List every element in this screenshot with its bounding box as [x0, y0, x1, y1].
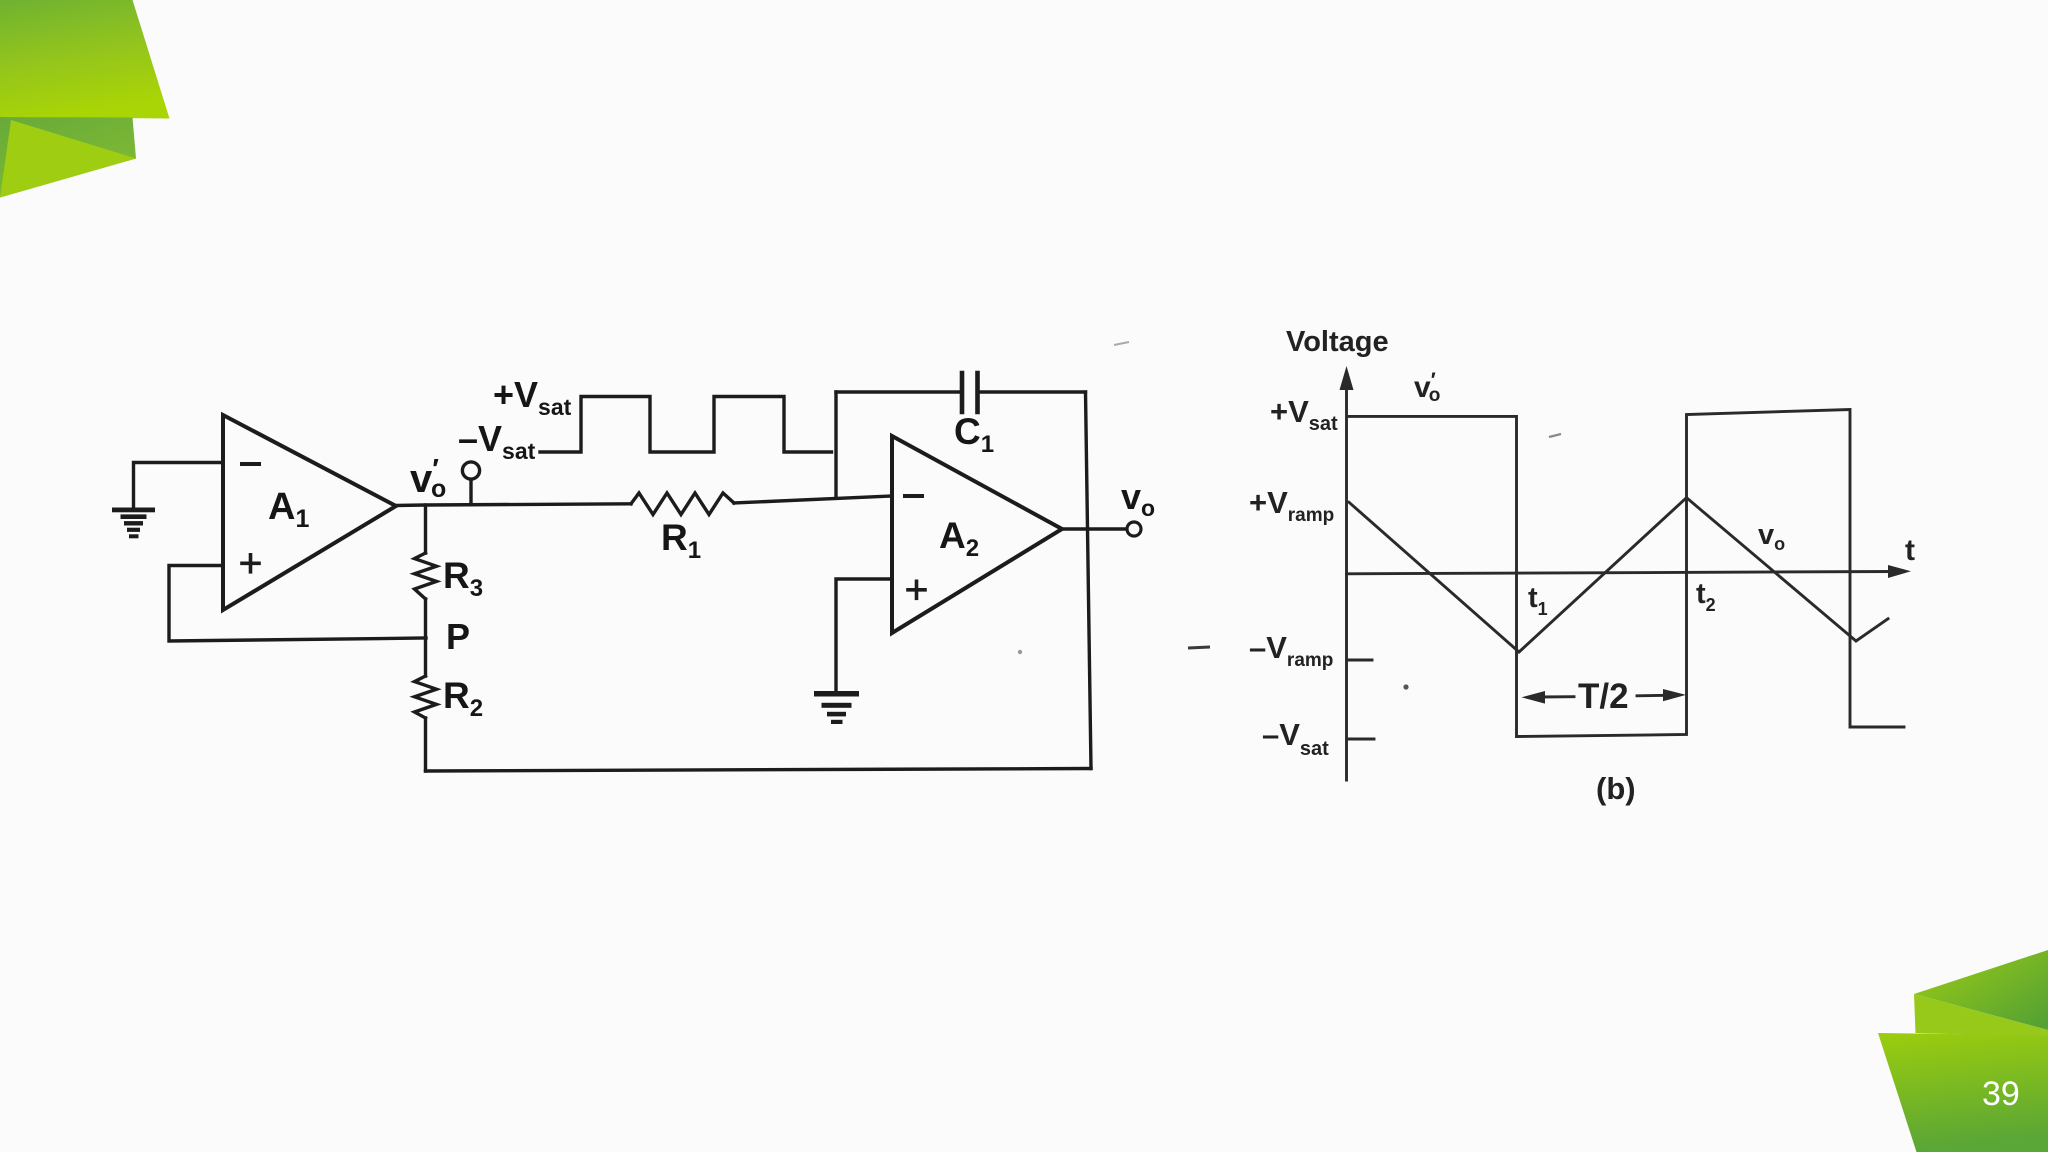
label vo (circuit output) — [1121, 476, 1155, 521]
T/2 dimension arrows — [1538, 695, 1666, 697]
label -Vramp (graph) — [1249, 630, 1333, 671]
wire: top rail to capacitor C1 — [836, 390, 961, 393]
svg-text:A1: A1 — [268, 486, 309, 533]
svg-text:+Vsat: +Vsat — [493, 374, 572, 420]
wire: R3 to node P to R2 — [424, 599, 427, 676]
node vo terminal — [1127, 522, 1141, 536]
label +Vsat — [493, 374, 572, 420]
wire: A1 output to node v'o — [396, 504, 631, 506]
label R2 — [443, 675, 483, 722]
label P — [446, 616, 470, 657]
triangular wave vo curve — [1349, 498, 1888, 652]
svg-text:–Vramp: –Vramp — [1249, 630, 1333, 671]
T/2 right arrowhead — [1663, 689, 1686, 701]
svg-text:A2: A2 — [939, 515, 979, 562]
svg-text:R2: R2 — [443, 675, 483, 722]
resistor R1 — [631, 493, 734, 515]
tick -Vramp — [1348, 659, 1372, 662]
svg-text:C1: C1 — [954, 411, 994, 458]
label (b) — [1596, 771, 1636, 806]
label A1 — [268, 486, 309, 533]
wire: R2 to bottom rail — [424, 718, 427, 771]
T/2 left arrowhead — [1522, 691, 1546, 704]
node v'o terminal — [462, 462, 479, 504]
wire: feedback junction vertical to top rail — [834, 392, 837, 497]
square wave sketch at v'o — [540, 397, 832, 453]
label A2 — [939, 515, 979, 562]
circuit labels — [268, 374, 1155, 722]
op-amp A2 — [892, 436, 1062, 633]
wire: A2 non-inverting input to ground — [836, 579, 892, 690]
label v'o — [410, 453, 446, 503]
wire: right vertical from output to bottom rail — [1086, 392, 1092, 769]
label Voltage — [1286, 326, 1389, 358]
svg-text:T/2: T/2 — [1578, 677, 1629, 716]
ground (A1 inverting input) — [112, 508, 155, 539]
label R1 — [661, 517, 701, 564]
svg-text:v′o: v′o — [410, 453, 446, 503]
graph labels — [1249, 326, 1915, 806]
label t (time axis) — [1905, 534, 1915, 567]
A1 inverting input pin (-) — [242, 462, 259, 466]
label -Vsat (graph) — [1262, 717, 1329, 760]
wire: capacitor C1 to right vertical — [978, 390, 1086, 393]
voltage axis — [1345, 384, 1348, 780]
label +Vramp (graph) — [1249, 485, 1334, 526]
svg-text:vo: vo — [1758, 519, 1785, 554]
label t2 — [1696, 578, 1716, 615]
label T/2 — [1578, 677, 1629, 716]
svg-text:R3: R3 — [443, 555, 483, 602]
A2 non-inverting input pin (+) — [908, 581, 925, 598]
wire: node v'o down to R3 — [424, 505, 427, 553]
label -Vsat — [458, 418, 536, 464]
op-amp A1 — [223, 415, 396, 610]
label +Vsat (graph) — [1270, 394, 1338, 435]
square wave v'o curve — [1349, 410, 1904, 737]
svg-text:–Vsat: –Vsat — [458, 418, 536, 464]
A2 inverting input pin (-) — [905, 494, 922, 498]
svg-text:(b): (b) — [1596, 771, 1636, 806]
svg-text:–Vsat: –Vsat — [1262, 717, 1329, 760]
resistor R2 — [415, 676, 437, 718]
wire: A1 non-inverting input feedback to node P — [169, 566, 426, 642]
svg-text:P: P — [446, 616, 470, 657]
A1 non-inverting input pin (+) — [242, 555, 259, 572]
svg-text:+Vsat: +Vsat — [1270, 394, 1338, 435]
resistor R3 — [415, 553, 437, 599]
svg-text:+Vramp: +Vramp — [1249, 485, 1334, 526]
CIRCUIT — [112, 373, 1141, 771]
ground (A2 non-inverting input) — [814, 691, 859, 724]
svg-text:t: t — [1905, 534, 1915, 567]
tick -Vsat — [1348, 738, 1374, 741]
svg-text:t2: t2 — [1696, 578, 1716, 615]
label v'o (graph) — [1414, 369, 1440, 406]
WAVEFORM GRAPH (b) — [1347, 384, 1905, 780]
time axis — [1347, 572, 1895, 574]
wire: A2 output — [1062, 527, 1127, 530]
label vo (graph) — [1758, 519, 1785, 554]
svg-text:v′o: v′o — [1414, 369, 1440, 406]
capacitor C1 — [962, 373, 978, 412]
svg-text:R1: R1 — [661, 517, 701, 564]
label t1 — [1528, 582, 1548, 619]
stray scan marks — [1188, 647, 1210, 648]
voltage axis arrowhead — [1340, 366, 1354, 390]
label R3 — [443, 555, 483, 602]
svg-text:vo: vo — [1121, 476, 1155, 521]
wire: A1 inverting input to ground — [134, 463, 224, 508]
time axis arrowhead — [1888, 565, 1911, 578]
wire: R1 to A2 inverting input — [734, 496, 892, 503]
label C1 — [954, 411, 994, 458]
wire: bottom feedback rail — [426, 769, 1092, 772]
svg-text:39: 39 — [1982, 1075, 2020, 1113]
svg-text:Voltage: Voltage — [1286, 326, 1389, 358]
svg-text:t1: t1 — [1528, 582, 1548, 619]
